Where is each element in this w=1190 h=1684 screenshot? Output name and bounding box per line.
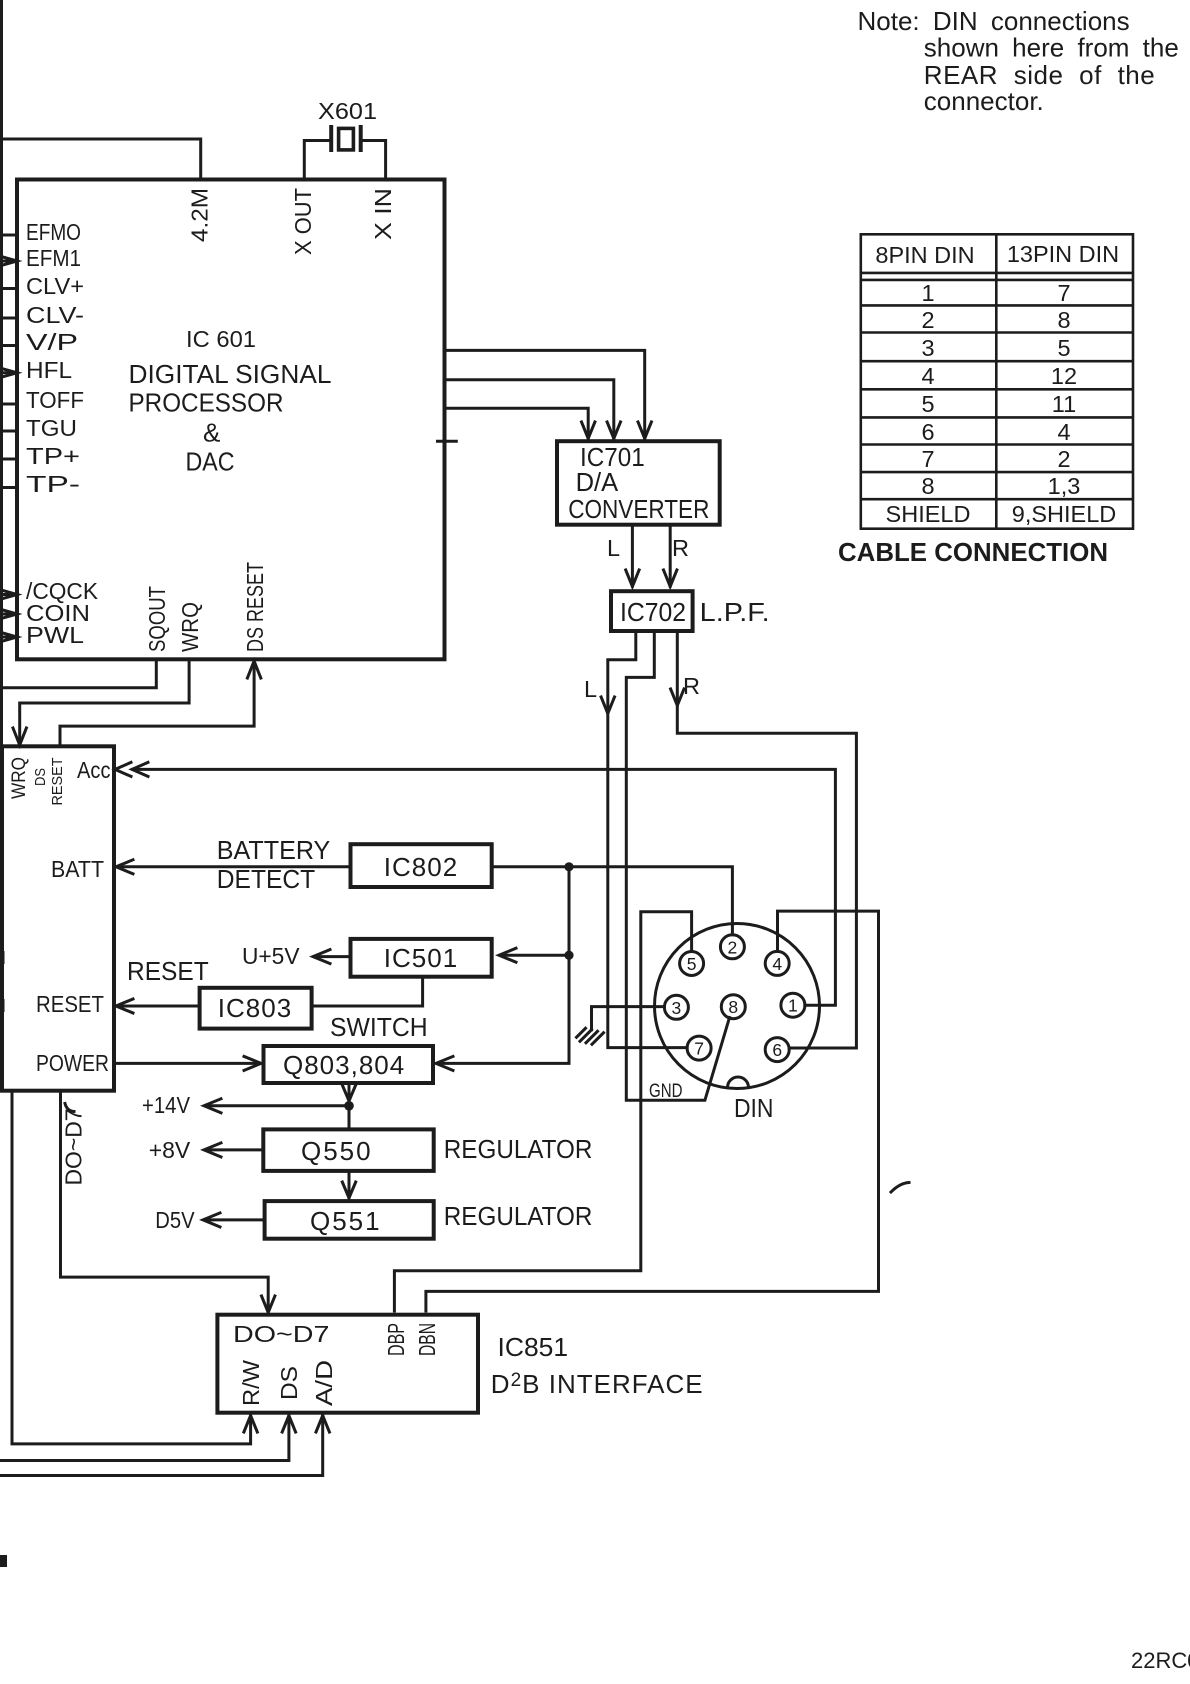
svg-text:L: L	[584, 676, 597, 702]
chassis ground symbol	[577, 1028, 604, 1044]
wire D5V output	[203, 1213, 265, 1227]
svg-text:2: 2	[1057, 446, 1070, 472]
svg-text:1: 1	[788, 996, 798, 1016]
cut wire stub left edge (blob)	[0, 1555, 7, 1567]
pin TP+	[0, 443, 80, 469]
svg-text:8: 8	[728, 997, 738, 1017]
svg-text:7: 7	[1057, 280, 1070, 306]
wire IC501 to IC803	[312, 977, 423, 1006]
wire DIN pin 4 up over to DBN drop	[426, 911, 879, 1311]
tick on IC601 right edge	[438, 440, 457, 443]
wire switch output down	[348, 1083, 351, 1129]
svg-text:X601: X601	[318, 98, 377, 124]
wire D0~D7 bus controller to IC851	[61, 1091, 275, 1313]
pin DS RESET wire from system controller	[60, 562, 268, 746]
wire R/W from controller to IC851	[12, 1091, 257, 1444]
svg-text:12: 12	[1051, 363, 1077, 389]
svg-text:A/D: A/D	[311, 1360, 337, 1406]
page edge cut line left	[0, 0, 3, 746]
svg-text:8PIN DIN: 8PIN DIN	[875, 242, 974, 268]
DIN pin 3	[664, 995, 688, 1019]
svg-text:TP-: TP-	[26, 471, 80, 497]
arrow into Q803 right edge	[436, 1056, 453, 1070]
svg-text:EFMO: EFMO	[26, 219, 81, 245]
svg-text:Q803,804: Q803,804	[283, 1050, 405, 1080]
svg-text:4: 4	[1057, 419, 1070, 445]
pin TGU	[0, 415, 77, 441]
svg-text:R: R	[672, 535, 689, 561]
svg-text:BATTERY: BATTERY	[217, 835, 330, 865]
svg-text:IC851: IC851	[498, 1332, 569, 1362]
wire DS from page edge to IC851	[0, 1416, 296, 1461]
wire Acc from DIN pin 1	[115, 762, 835, 1005]
IC702 low pass filter	[611, 591, 693, 631]
svg-text:DETECT: DETECT	[217, 864, 316, 894]
svg-text:1,3: 1,3	[1048, 473, 1081, 499]
wire Q550 to Q551	[342, 1171, 355, 1201]
pin SQOUT wire to page edge	[0, 586, 170, 688]
system controller box (unlabeled)	[2, 746, 114, 1090]
junction dot +14V	[344, 1101, 354, 1111]
svg-text:11: 11	[1052, 391, 1076, 417]
svg-text:TP+: TP+	[26, 443, 80, 469]
pin V/P	[0, 329, 78, 355]
svg-text:DBN: DBN	[414, 1323, 440, 1356]
pin PWL	[0, 622, 84, 648]
svg-text:TOFF: TOFF	[26, 387, 84, 413]
DIN pin 4	[765, 951, 789, 975]
DIN pin 7	[687, 1036, 711, 1060]
svg-text:3: 3	[672, 998, 682, 1018]
wire U+5V output	[313, 950, 351, 964]
DIN pin 6	[765, 1038, 789, 1062]
svg-text:DS: DS	[276, 1366, 302, 1400]
svg-text:6: 6	[921, 419, 934, 445]
svg-text:8: 8	[1057, 307, 1070, 333]
pin CLV+	[0, 273, 84, 299]
svg-text:DIGITAL SIGNAL: DIGITAL SIGNAL	[129, 359, 332, 389]
svg-text:4: 4	[921, 363, 934, 389]
IC701 D/A converter	[557, 441, 720, 525]
IC501 regulator	[351, 939, 492, 977]
svg-text:DIN: DIN	[734, 1093, 774, 1123]
svg-text:PROCESSOR: PROCESSOR	[129, 388, 284, 418]
svg-text:D/A: D/A	[576, 467, 619, 497]
arrow on L wire	[601, 697, 614, 714]
arrowhead on switch output	[342, 1085, 355, 1101]
wire IC601 out 1 to IC701	[445, 350, 652, 438]
wire +14V output	[204, 1099, 349, 1113]
svg-text:Acc: Acc	[77, 757, 111, 783]
wire IC701 L to IC702	[626, 525, 639, 587]
junction dot BATT rail	[564, 862, 573, 871]
IC601 digital signal processor box	[17, 180, 445, 660]
svg-text:L: L	[607, 535, 620, 561]
svg-text:V/P: V/P	[26, 329, 78, 355]
svg-text:5: 5	[687, 954, 697, 974]
pin EFM1	[0, 245, 81, 271]
wire IC601 out 2 to IC701	[445, 380, 621, 439]
wire L out of IC702 to DIN pin 7	[608, 631, 687, 1048]
svg-text:CLV-: CLV-	[26, 302, 84, 328]
svg-text:DO~D7: DO~D7	[61, 1109, 87, 1186]
wire crystal to X IN	[361, 141, 386, 180]
IC851 D2B interface box	[217, 1315, 478, 1413]
wire GND out of IC702 to DIN pin 8	[626, 631, 729, 1100]
svg-text:WRQ: WRQ	[177, 602, 203, 652]
wire IC802 output to DIN pin 2	[492, 867, 733, 935]
stray arc mark near bus	[65, 1104, 74, 1112]
svg-text:WRQ: WRQ	[9, 757, 30, 799]
svg-text:6: 6	[772, 1040, 782, 1060]
svg-text:Q551: Q551	[310, 1206, 382, 1236]
svg-text:3: 3	[921, 335, 934, 361]
svg-text:+8V: +8V	[149, 1137, 191, 1163]
pin COIN	[0, 600, 90, 626]
DIN pin 1	[781, 993, 805, 1017]
table rows	[886, 280, 1117, 527]
wire DIN pin 3 to chassis ground	[592, 1007, 665, 1030]
svg-text:22RC0: 22RC0	[1131, 1648, 1190, 1673]
junction dot rail to IC501	[564, 951, 573, 960]
wire POWER to switch	[114, 1056, 264, 1070]
svg-text:TGU: TGU	[26, 415, 77, 441]
svg-text:2: 2	[728, 937, 738, 957]
svg-text:PWL: PWL	[26, 622, 84, 648]
svg-text:connector.: connector.	[924, 86, 1044, 116]
wire A/D from page edge to IC851	[0, 1416, 329, 1476]
svg-text:POWER: POWER	[36, 1050, 109, 1076]
svg-text:CABLE CONNECTION: CABLE CONNECTION	[838, 537, 1108, 567]
svg-text:7: 7	[921, 446, 934, 472]
crystal X601	[331, 127, 361, 150]
svg-text:BATT: BATT	[51, 856, 104, 882]
wire +8V output	[204, 1143, 263, 1157]
svg-text:IC802: IC802	[384, 852, 458, 882]
svg-text:IC 601: IC 601	[186, 326, 256, 352]
wire 4.2M clock input from page edge	[2, 139, 201, 180]
svg-text:9,SHIELD: 9,SHIELD	[1012, 501, 1117, 527]
svg-text:SWITCH: SWITCH	[330, 1012, 428, 1042]
DIN pin 5	[680, 952, 704, 976]
IC803 reset	[200, 988, 312, 1029]
cable connection table frame	[861, 234, 1133, 528]
wire DIN pin 5 up over to DBP drop	[394, 912, 691, 1311]
IC802 battery detect	[351, 844, 492, 887]
svg-text:DS RESET: DS RESET	[242, 562, 268, 652]
svg-text:IC501: IC501	[384, 943, 458, 973]
pin EFMO	[0, 219, 81, 245]
arrow on R wire	[671, 689, 684, 706]
svg-text:4: 4	[772, 954, 782, 974]
DIN key notch	[728, 1077, 749, 1088]
svg-text:DS: DS	[32, 768, 49, 786]
wire BATT from IC802 to controller	[114, 860, 351, 874]
note text DIN connections	[858, 6, 1179, 116]
svg-text:DBP: DBP	[383, 1323, 409, 1356]
Q803,804 switch	[264, 1046, 434, 1083]
svg-text:+14V: +14V	[142, 1092, 190, 1118]
svg-text:REGULATOR: REGULATOR	[444, 1201, 593, 1231]
svg-text:R/W: R/W	[238, 1359, 264, 1406]
svg-text:2: 2	[921, 307, 934, 333]
svg-text:RESET: RESET	[36, 991, 104, 1017]
svg-text:7: 7	[694, 1039, 704, 1059]
svg-text:D5V: D5V	[155, 1207, 195, 1233]
svg-text:R: R	[683, 673, 700, 699]
svg-text:U+5V: U+5V	[242, 943, 300, 969]
DIN pin 8	[721, 995, 745, 1019]
svg-text:5: 5	[921, 391, 934, 417]
svg-text:5: 5	[1057, 335, 1070, 361]
svg-text:IC803: IC803	[218, 993, 292, 1023]
pin CLV-	[0, 302, 84, 328]
wire IC601 out 3 to IC701	[445, 408, 595, 438]
pin WRQ wire to system controller	[13, 602, 203, 745]
svg-text:X IN: X IN	[370, 188, 396, 240]
svg-text:IC702: IC702	[620, 597, 686, 627]
svg-text:1: 1	[921, 280, 934, 306]
svg-text:EFM1: EFM1	[26, 245, 81, 271]
svg-text:SHIELD: SHIELD	[886, 501, 971, 527]
svg-text:REGULATOR: REGULATOR	[444, 1134, 593, 1164]
svg-text:DAC: DAC	[186, 447, 235, 477]
svg-text:&: &	[203, 418, 220, 448]
svg-text:L.P.F.: L.P.F.	[700, 597, 770, 627]
svg-text:8: 8	[921, 473, 934, 499]
wire power rail down from BATT junction	[439, 867, 569, 1064]
svg-text:RESET: RESET	[49, 758, 66, 806]
svg-text:13PIN DIN: 13PIN DIN	[1007, 241, 1119, 267]
svg-text:Q550: Q550	[301, 1136, 373, 1166]
svg-text:GND: GND	[649, 1081, 683, 1102]
svg-text:SQOUT: SQOUT	[144, 586, 170, 652]
svg-text:shown here from the: shown here from the	[924, 33, 1179, 63]
cut mark left edge lower	[0, 999, 5, 1012]
Q551 regulator	[265, 1201, 434, 1239]
wire X OUT to crystal	[304, 141, 331, 180]
wire R out of IC702 to DIN pin 6	[677, 631, 856, 1048]
svg-text:RESET: RESET	[127, 956, 209, 986]
pin HFL	[0, 357, 72, 383]
wire IC701 R to IC702	[664, 525, 677, 587]
svg-text:CONVERTER: CONVERTER	[568, 494, 709, 524]
cut mark left edge upper	[0, 951, 5, 964]
svg-text:Note: DIN connections: Note: DIN connections	[858, 6, 1130, 36]
svg-text:4.2M: 4.2M	[187, 188, 213, 242]
pin /CQCK	[0, 578, 98, 604]
Q550 regulator	[263, 1129, 433, 1171]
wire rail to IC501 input	[499, 948, 569, 962]
svg-text:D2B INTERFACE: D2B INTERFACE	[491, 1369, 704, 1399]
svg-text:HFL: HFL	[26, 357, 72, 383]
IC601 title	[129, 326, 332, 477]
svg-text:CLV+: CLV+	[26, 273, 84, 299]
table header 8PIN DIN / 13PIN DIN	[875, 241, 1119, 268]
DIN pin 2	[720, 935, 744, 959]
pin TOFF	[0, 387, 84, 413]
svg-text:X OUT: X OUT	[290, 188, 316, 255]
wire RESET to controller	[114, 999, 200, 1013]
pin TP-	[0, 471, 80, 497]
stray arc mark right	[891, 1183, 909, 1193]
DIN connector circle	[655, 924, 820, 1089]
svg-text:DO~D7: DO~D7	[233, 1321, 330, 1347]
